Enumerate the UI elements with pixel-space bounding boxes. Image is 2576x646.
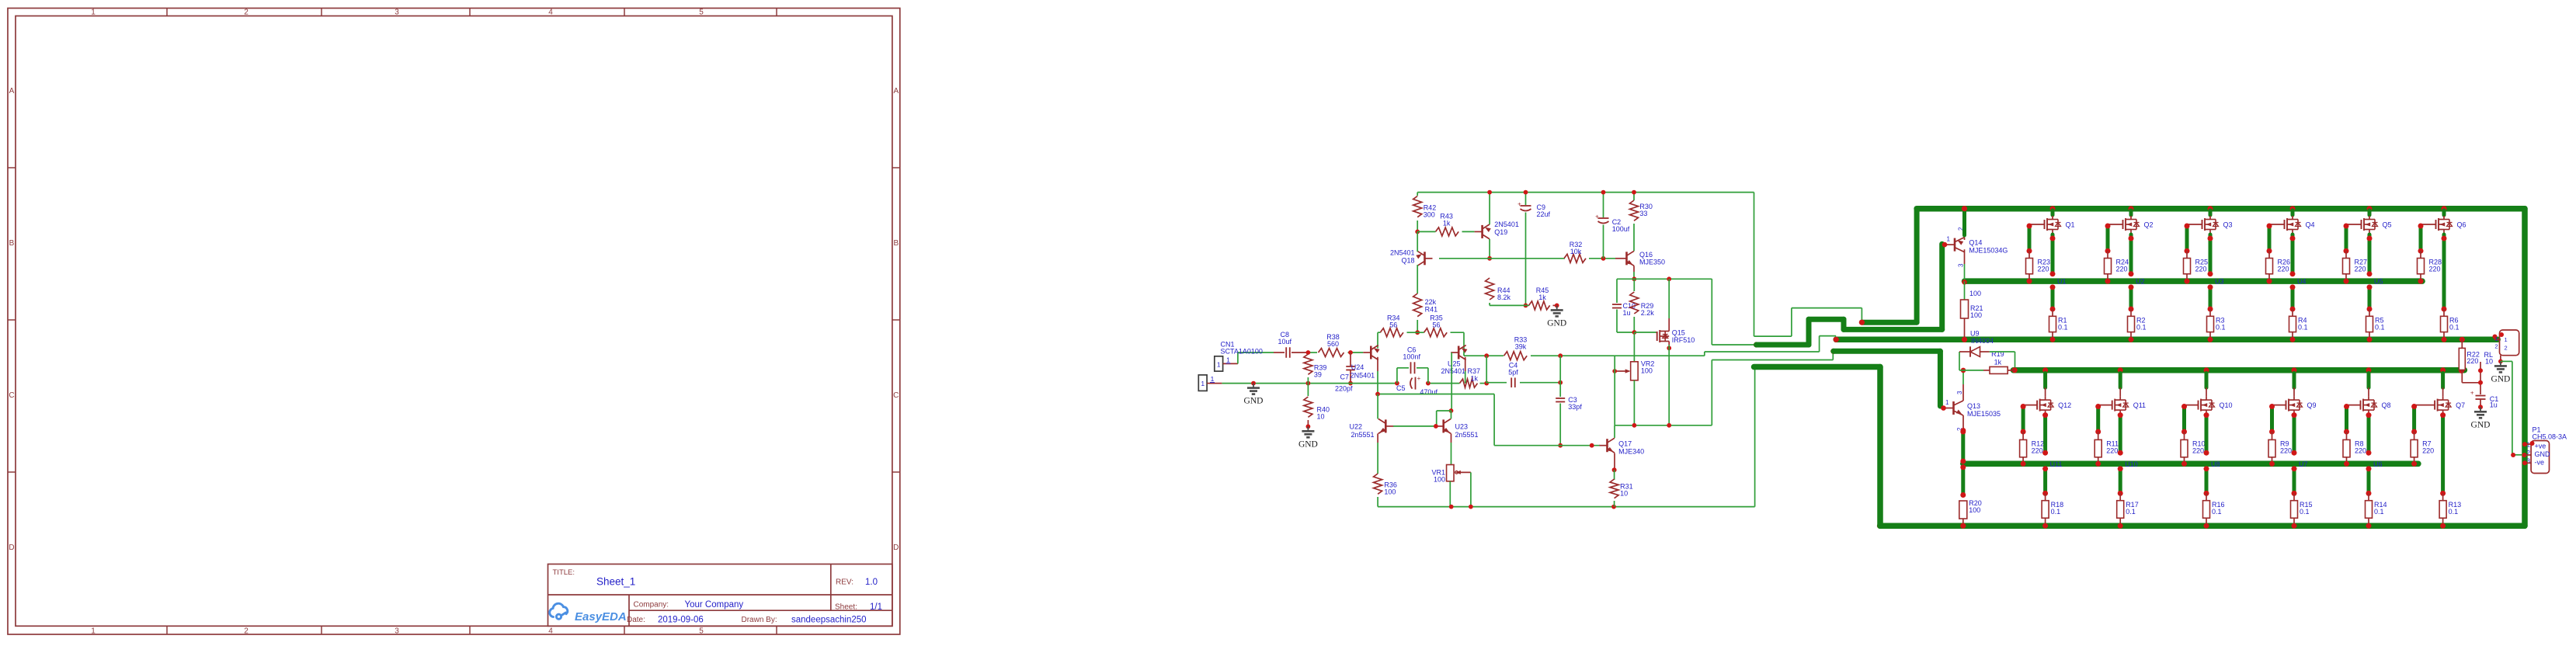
svg-text:100uf: 100uf	[1612, 225, 1630, 233]
svg-text:SCTA1A0100: SCTA1A0100	[1221, 347, 1263, 355]
svg-text:2: 2	[2505, 345, 2508, 352]
svg-text:GND: GND	[1244, 397, 1264, 406]
svg-text:5pf: 5pf	[1508, 368, 1518, 376]
svg-text:Q12: Q12	[2058, 401, 2071, 409]
svg-text:0.1: 0.1	[2449, 323, 2460, 331]
svg-text:Q18: Q18	[1401, 256, 1414, 264]
svg-text:2: 2	[2494, 343, 2498, 350]
svg-text:GND: GND	[2471, 420, 2491, 429]
svg-text:A: A	[893, 87, 899, 96]
svg-text:C: C	[9, 391, 14, 400]
svg-text:220: 220	[2106, 447, 2118, 455]
svg-text:100: 100	[1969, 506, 1980, 514]
svg-text:B: B	[9, 239, 15, 248]
svg-text:220: 220	[2355, 447, 2366, 455]
svg-text:D: D	[893, 544, 899, 552]
svg-text:100: 100	[1434, 475, 1445, 483]
svg-text:Q17: Q17	[1618, 440, 1632, 448]
svg-text:Q10: Q10	[2220, 401, 2233, 409]
svg-text:100: 100	[1969, 290, 1981, 297]
svg-text:1: 1	[91, 627, 96, 635]
svg-text:1.0: 1.0	[865, 578, 878, 587]
svg-text:U4: U4	[2297, 278, 2307, 286]
svg-text:1: 1	[2505, 336, 2508, 343]
svg-text:10: 10	[1620, 489, 1628, 497]
svg-text:220: 220	[2116, 266, 2128, 273]
svg-text:1: 1	[1217, 361, 1221, 369]
svg-text:3: 3	[395, 627, 399, 635]
svg-text:Q19: Q19	[1494, 228, 1507, 236]
svg-text:GND: GND	[1298, 439, 1318, 449]
svg-text:0.1: 0.1	[2216, 323, 2226, 331]
svg-text:33: 33	[1639, 210, 1647, 217]
svg-text:C: C	[893, 391, 899, 400]
svg-text:U5: U5	[2374, 278, 2383, 286]
svg-text:1k: 1k	[1994, 359, 2002, 366]
svg-text:+ve: +ve	[2535, 442, 2546, 450]
svg-text:Q9: Q9	[2307, 401, 2317, 409]
svg-text:220: 220	[2466, 357, 2478, 365]
svg-text:Q2: Q2	[2144, 221, 2154, 228]
svg-text:U22: U22	[1349, 422, 1362, 430]
svg-text:56: 56	[1432, 321, 1440, 329]
svg-text:U11: U11	[2050, 460, 2063, 468]
svg-text:1: 1	[1226, 356, 1230, 363]
svg-text:2n5551: 2n5551	[1351, 431, 1374, 439]
svg-text:Q11: Q11	[2133, 401, 2146, 409]
svg-text:0.1: 0.1	[2058, 323, 2068, 331]
svg-text:Q7: Q7	[2456, 401, 2465, 409]
svg-text:U10: U10	[2125, 460, 2138, 468]
svg-text:REV:: REV:	[836, 578, 853, 587]
svg-text:1: 1	[1211, 375, 1215, 383]
svg-text:D: D	[9, 544, 14, 552]
svg-text:1: 1	[1201, 380, 1205, 387]
svg-text:0.1: 0.1	[2375, 323, 2385, 331]
svg-text:Q4: Q4	[2306, 221, 2315, 228]
svg-text:Q16: Q16	[1639, 251, 1653, 259]
svg-text:Your Company: Your Company	[685, 600, 744, 610]
svg-text:0.1: 0.1	[2051, 508, 2061, 516]
svg-text:220: 220	[2429, 266, 2441, 273]
svg-text:22uf: 22uf	[1537, 210, 1551, 218]
svg-text:U23: U23	[1455, 422, 1469, 430]
svg-text:sandeepsachin250: sandeepsachin250	[791, 616, 867, 625]
svg-text:220pf: 220pf	[1335, 384, 1353, 392]
svg-text:100: 100	[1970, 311, 1982, 319]
svg-text:Company:: Company:	[634, 601, 669, 610]
svg-text:Q14: Q14	[1969, 238, 1982, 246]
svg-text:300: 300	[1424, 210, 1435, 218]
svg-text:A: A	[9, 87, 15, 96]
svg-text:+: +	[1595, 214, 1599, 221]
svg-text:4: 4	[548, 627, 553, 635]
svg-text:1u: 1u	[2490, 401, 2498, 409]
svg-text:2: 2	[244, 627, 249, 635]
svg-text:1/1: 1/1	[870, 603, 882, 612]
svg-text:220: 220	[2278, 266, 2289, 273]
svg-text:Q1: Q1	[2066, 221, 2075, 228]
svg-text:1: 1	[2494, 335, 2498, 342]
svg-text:100: 100	[1384, 488, 1396, 495]
svg-text:1: 1	[1945, 399, 1949, 406]
svg-text:U24: U24	[1351, 363, 1364, 371]
svg-text:39k: 39k	[1515, 343, 1527, 351]
svg-text:CH5.08-3A: CH5.08-3A	[2533, 433, 2567, 441]
svg-text:EasyEDA: EasyEDA	[575, 610, 627, 623]
svg-text:GND: GND	[2491, 374, 2510, 384]
svg-text:100: 100	[1641, 366, 1653, 374]
svg-text:U2: U2	[2136, 278, 2145, 286]
svg-text:Sheet_1: Sheet_1	[596, 576, 635, 588]
svg-text:B: B	[893, 239, 899, 248]
svg-text:0.1: 0.1	[2374, 508, 2384, 516]
svg-text:56: 56	[1389, 321, 1397, 329]
svg-text:MJE350: MJE350	[1639, 259, 1665, 266]
svg-text:3: 3	[395, 8, 399, 16]
svg-text:MJE15034G: MJE15034G	[1969, 247, 2008, 255]
svg-text:220: 220	[2355, 266, 2366, 273]
svg-text:Drawn By:: Drawn By:	[742, 616, 777, 624]
svg-text:MJE15035: MJE15035	[1967, 410, 2001, 418]
svg-text:1: 1	[1947, 236, 1951, 243]
svg-text:Q6: Q6	[2457, 221, 2466, 228]
svg-text:220: 220	[2032, 447, 2043, 455]
svg-text:8.2k: 8.2k	[1497, 293, 1511, 301]
svg-text:GND: GND	[2535, 450, 2551, 458]
svg-text:1k: 1k	[1443, 220, 1451, 227]
svg-text:Date:: Date:	[627, 616, 645, 624]
svg-text:2N5401: 2N5401	[1441, 367, 1465, 375]
svg-text:IN4004: IN4004	[1971, 337, 1994, 345]
svg-text:0.1: 0.1	[2449, 508, 2459, 516]
svg-text:220: 220	[2192, 447, 2204, 455]
svg-text:220: 220	[2038, 266, 2049, 273]
svg-text:0.1: 0.1	[2136, 323, 2147, 331]
svg-text:0.1: 0.1	[2212, 508, 2222, 516]
svg-text:2.2k: 2.2k	[1641, 309, 1655, 317]
svg-text:2N5401: 2N5401	[1494, 221, 1519, 228]
svg-text:1k: 1k	[1538, 293, 1546, 301]
svg-text:10k: 10k	[1570, 248, 1582, 255]
svg-text:C7: C7	[1340, 373, 1349, 380]
svg-text:1k: 1k	[1471, 374, 1479, 382]
svg-text:2N5401: 2N5401	[1390, 248, 1415, 256]
svg-text:Q8: Q8	[2382, 401, 2391, 409]
svg-text:+: +	[1517, 201, 1521, 208]
svg-text:5: 5	[699, 627, 704, 635]
svg-text:2N5401: 2N5401	[1351, 372, 1375, 380]
svg-text:220: 220	[2422, 447, 2434, 455]
svg-text:U3: U3	[2215, 278, 2224, 286]
svg-text:0.1: 0.1	[2300, 508, 2310, 516]
svg-text:U25: U25	[1448, 359, 1461, 367]
svg-text:1: 1	[91, 8, 96, 16]
svg-text:R41: R41	[1425, 305, 1438, 313]
svg-text:220: 220	[2280, 447, 2292, 455]
svg-text:U1: U1	[2057, 278, 2067, 286]
svg-text:-ve: -ve	[2535, 458, 2545, 466]
svg-text:+: +	[1417, 375, 1421, 382]
svg-text:2n5551: 2n5551	[1455, 431, 1479, 439]
svg-text:Sheet:: Sheet:	[835, 603, 857, 612]
svg-text:+: +	[2470, 390, 2474, 397]
svg-text:2019-09-06: 2019-09-06	[658, 616, 704, 625]
svg-text:Q3: Q3	[2223, 221, 2233, 228]
svg-text:0.1: 0.1	[2298, 323, 2308, 331]
svg-text:1u: 1u	[1623, 309, 1631, 317]
svg-text:U7: U7	[2299, 460, 2308, 468]
svg-text:C5: C5	[1396, 384, 1406, 392]
svg-text:Q15: Q15	[1672, 329, 1685, 337]
svg-text:560: 560	[1327, 340, 1339, 348]
svg-text:100nf: 100nf	[1403, 353, 1420, 361]
svg-text:Q13: Q13	[1967, 402, 1980, 410]
svg-text:10: 10	[1317, 413, 1325, 421]
svg-text:TITLE:: TITLE:	[553, 568, 575, 577]
svg-text:10uf: 10uf	[1278, 338, 1292, 346]
svg-text:220: 220	[2195, 266, 2207, 273]
svg-text:U6: U6	[2373, 460, 2383, 468]
svg-text:39: 39	[1314, 370, 1322, 378]
svg-text:33pf: 33pf	[1568, 403, 1582, 411]
svg-text:U9: U9	[1970, 329, 1980, 337]
svg-text:5: 5	[699, 8, 704, 16]
svg-text:10: 10	[2485, 358, 2493, 366]
svg-text:U8: U8	[2211, 460, 2220, 468]
svg-text:3: 3	[1956, 391, 1963, 394]
svg-text:0.1: 0.1	[2126, 508, 2136, 516]
svg-text:2: 2	[244, 8, 249, 16]
svg-text:3: 3	[1958, 263, 1965, 267]
svg-text:4: 4	[548, 8, 553, 16]
svg-text:Q5: Q5	[2383, 221, 2392, 228]
svg-text:MJE340: MJE340	[1618, 448, 1644, 456]
svg-text:GND: GND	[1547, 318, 1566, 328]
svg-text:IRF510: IRF510	[1672, 336, 1695, 344]
